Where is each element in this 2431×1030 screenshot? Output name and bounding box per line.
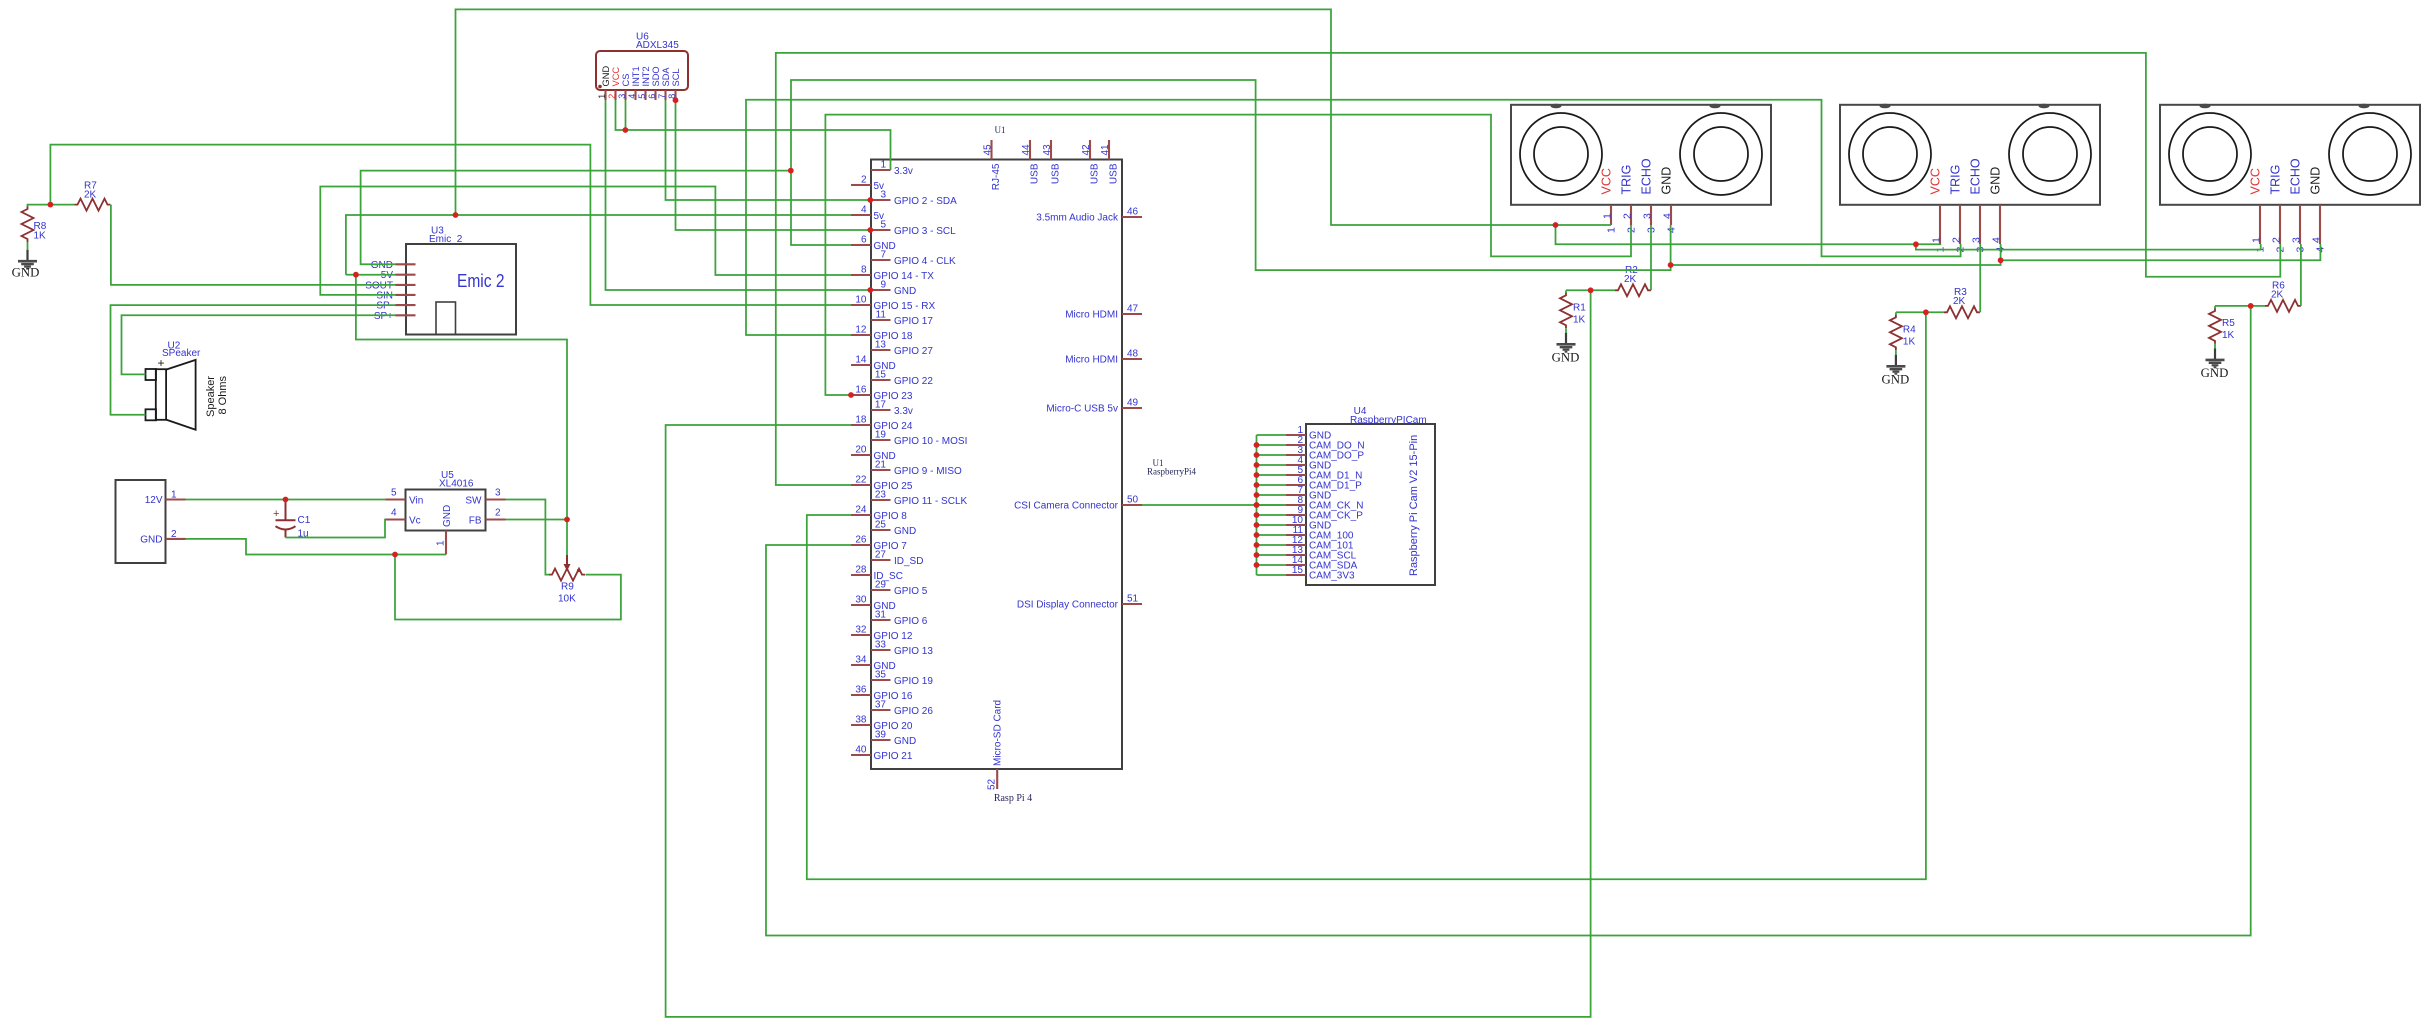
svg-text:VCC: VCC (2248, 168, 2262, 194)
wire net GND Pi pin6 riser and chain to sensor1 pin4 (791, 80, 1671, 270)
wire net SP+ to speaker + (122, 315, 396, 374)
svg-text:Vin: Vin (409, 496, 423, 507)
svg-text:USB: USB (1090, 163, 1101, 184)
svg-text:GPIO 5: GPIO 5 (894, 586, 928, 597)
ground below R8 (12, 250, 40, 280)
svg-text:CAM_3V3: CAM_3V3 (1309, 571, 1355, 582)
svg-text:27: 27 (875, 550, 887, 561)
svg-text:2K: 2K (2271, 289, 2284, 300)
wire wire camera pin15 elbow (1257, 574, 1287, 576)
wire net TRIG1 Pi pin16 GPIO23 to sensor1 pin2 (825, 115, 1631, 395)
svg-text:Micro-SD Card: Micro-SD Card (993, 700, 1004, 766)
wire net SP- to speaker - (111, 305, 396, 415)
svg-text:33: 33 (875, 640, 887, 651)
svg-text:1K: 1K (34, 231, 47, 242)
wire net TRIG2 Pi pin12 GPIO18 to sensor2 pin2 (746, 100, 1961, 335)
svg-text:8: 8 (861, 265, 867, 276)
wire wire camera pin8 link (1257, 504, 1287, 506)
svg-text:1: 1 (436, 540, 447, 546)
svg-text:GPIO 21: GPIO 21 (874, 751, 913, 762)
svg-text:43: 43 (1042, 144, 1053, 156)
wire net 3.3v ADXL VCC/CS to Pi pin1 (616, 100, 891, 170)
wire wire camera pin10 link (1257, 524, 1287, 526)
resistor R6 2K (2265, 280, 2301, 312)
wire net 5V top run to sensor1 VCC (456, 9, 1612, 225)
wire wire node3 to R6 left (2251, 305, 2265, 307)
svg-text:SDA: SDA (661, 67, 671, 87)
wire wire node2 to R4 top (1896, 311, 1926, 313)
wire wire camera pin1 elbow (1257, 434, 1287, 436)
wire wire R1 bottom to ground (1565, 328, 1567, 333)
svg-text:GND: GND (140, 535, 162, 546)
svg-text:USB: USB (1109, 163, 1120, 184)
wire wire camera pin12 link (1257, 544, 1287, 546)
svg-text:2K: 2K (1953, 296, 1966, 307)
svg-text:1: 1 (880, 160, 886, 171)
svg-text:37: 37 (875, 700, 887, 711)
resistor R1 1K (1560, 292, 1586, 328)
svg-text:GPIO 22: GPIO 22 (894, 376, 933, 387)
svg-text:1K: 1K (1573, 314, 1586, 325)
svg-text:7: 7 (880, 250, 886, 261)
svg-text:20: 20 (855, 445, 867, 456)
svg-text:TRIG: TRIG (1619, 165, 1633, 195)
buck converter U5 XL4016 (386, 470, 506, 555)
ground below R5 (2201, 348, 2229, 380)
wire net 5V stub to R9 wiper (566, 520, 568, 556)
svg-text:2: 2 (2271, 237, 2283, 243)
wire wire camera pin11 link (1257, 534, 1287, 536)
svg-text:Rasp Pi 4: Rasp Pi 4 (994, 793, 1032, 804)
svg-text:Vc: Vc (409, 516, 421, 527)
wire wire node1 to R2 left (1591, 289, 1615, 291)
svg-text:Emic 2: Emic 2 (457, 270, 505, 291)
svg-text:RaspberryPICam: RaspberryPICam (1350, 415, 1427, 426)
svg-text:3.3v: 3.3v (894, 406, 913, 417)
svg-text:30: 30 (855, 595, 867, 606)
svg-text:1: 1 (171, 490, 177, 501)
svg-text:11: 11 (876, 310, 887, 321)
svg-text:2: 2 (861, 175, 867, 186)
svg-text:2: 2 (495, 508, 501, 519)
svg-text:XL4016: XL4016 (439, 479, 474, 490)
svg-text:USB: USB (1051, 163, 1062, 184)
svg-text:GND: GND (894, 526, 916, 537)
potentiometer R9 10K (549, 555, 585, 605)
svg-text:51: 51 (1127, 594, 1139, 605)
svg-text:SCL: SCL (671, 68, 681, 86)
wire wire R8 to ground (27, 242, 29, 250)
wire wire camera pin3 link (1257, 454, 1287, 456)
svg-text:GPIO 3 - SCL: GPIO 3 - SCL (894, 226, 956, 237)
wire wire camera pin9 link (1257, 514, 1287, 516)
wire net ADXL GND to Pi pin9 (606, 100, 870, 290)
wire net 5V riser FB to Emic 5V (356, 275, 567, 520)
wire wire R5 bottom to ground (2214, 344, 2216, 349)
wire net R7 R8 junction to R8 (28, 205, 75, 207)
svg-text:VCC: VCC (1928, 168, 1942, 194)
svg-text:18: 18 (855, 415, 867, 426)
svg-text:GPIO 11 - SCLK: GPIO 11 - SCLK (894, 496, 968, 507)
svg-text:GND: GND (371, 260, 393, 271)
svg-text:1K: 1K (2222, 330, 2235, 341)
svg-text:Micro HDMI: Micro HDMI (1065, 355, 1118, 366)
svg-text:1: 1 (1602, 213, 1614, 219)
wire net PGND 12V GND to U5 GND pin (186, 539, 447, 555)
svg-text:ADXL345: ADXL345 (636, 40, 679, 51)
svg-text:5: 5 (391, 488, 397, 499)
svg-text:31: 31 (875, 610, 887, 621)
svg-text:ID_SD: ID_SD (894, 556, 923, 567)
connector 12V input (116, 480, 186, 563)
speaker U2 (146, 341, 230, 430)
svg-text:SW: SW (465, 496, 482, 507)
svg-text:ECHO: ECHO (1639, 158, 1653, 194)
wire wire R4 bottom to ground (1895, 350, 1897, 355)
svg-text:SDO: SDO (651, 66, 661, 86)
svg-text:Emic_2: Emic_2 (429, 234, 463, 245)
svg-text:CS: CS (621, 74, 631, 87)
svg-text:19: 19 (875, 430, 887, 441)
svg-text:3: 3 (2291, 237, 2303, 243)
svg-text:3: 3 (1642, 213, 1654, 219)
wire wire camera pin13 link (1257, 554, 1287, 556)
svg-text:25: 25 (875, 520, 887, 531)
capacitor C1 1u (273, 500, 311, 540)
svg-text:GND: GND (1552, 350, 1580, 364)
svg-text:6: 6 (861, 235, 867, 246)
svg-text:12: 12 (855, 325, 867, 336)
svg-text:TRIG: TRIG (2268, 165, 2282, 195)
svg-text:TRIG: TRIG (1948, 165, 1962, 195)
svg-text:6: 6 (647, 94, 657, 99)
svg-text:7: 7 (657, 94, 667, 99)
svg-text:GPIO 9 - MISO: GPIO 9 - MISO (894, 466, 962, 477)
svg-text:2: 2 (1622, 213, 1634, 219)
svg-text:49: 49 (1127, 398, 1139, 409)
svg-text:1K: 1K (1903, 336, 1916, 347)
wire net 12V to U5 Vin with C1 tap (186, 499, 386, 501)
svg-text:15: 15 (875, 370, 887, 381)
svg-text:GPIO 19: GPIO 19 (894, 676, 933, 687)
wire net 5V into Emic 5V pin (356, 274, 396, 276)
svg-text:R4: R4 (1903, 324, 1916, 335)
svg-text:2: 2 (1951, 237, 1963, 243)
svg-text:1: 1 (2251, 237, 2263, 243)
svg-text:10K: 10K (558, 594, 576, 605)
svg-text:INT1: INT1 (631, 66, 641, 86)
svg-text:GPIO 10 - MOSI: GPIO 10 - MOSI (894, 436, 967, 447)
svg-text:GND: GND (1988, 167, 2002, 195)
wire wire R4 top lead (1895, 312, 1897, 315)
svg-text:R9: R9 (561, 582, 574, 593)
svg-text:2K: 2K (1624, 274, 1637, 285)
svg-text:4: 4 (2311, 237, 2323, 243)
svg-text:R1: R1 (1573, 302, 1586, 313)
svg-text:VCC: VCC (611, 67, 621, 87)
svg-text:8 Ohms: 8 Ohms (217, 375, 229, 414)
svg-text:GND: GND (2308, 167, 2322, 195)
svg-text:28: 28 (855, 565, 867, 576)
svg-text:Speaker: Speaker (205, 376, 217, 417)
wire net GND Emic_2 GND to pin6 riser (361, 171, 791, 265)
svg-text:GPIO 27: GPIO 27 (894, 346, 933, 357)
ultrasonic sensor 1 (1511, 104, 1771, 233)
svg-text:ECHO: ECHO (2288, 158, 2302, 194)
svg-text:23: 23 (875, 490, 887, 501)
wire wire camera bus vertical (1256, 435, 1258, 575)
resistor R4 1K (1890, 314, 1916, 350)
svg-text:3.3v: 3.3v (894, 166, 913, 177)
svg-text:CSI Camera Connector: CSI Camera Connector (1014, 501, 1119, 512)
svg-text:15: 15 (1292, 565, 1304, 576)
svg-text:24: 24 (855, 505, 867, 516)
svg-text:41: 41 (1100, 144, 1111, 156)
svg-text:GPIO 17: GPIO 17 (894, 316, 933, 327)
svg-text:2: 2 (171, 529, 177, 540)
wire net SDA ADXL pin7 to Pi pin3 (666, 100, 870, 200)
svg-text:4: 4 (627, 94, 637, 99)
resistor R2 2K (1615, 265, 1651, 297)
wire wire R1 top lead (1565, 290, 1567, 293)
svg-text:RJ-45: RJ-45 (991, 163, 1002, 190)
svg-text:22: 22 (855, 475, 867, 486)
svg-text:50: 50 (1127, 495, 1139, 506)
ground below R4 (1882, 355, 1910, 387)
svg-text:16: 16 (855, 385, 867, 396)
ground below R1 (1552, 333, 1580, 365)
camera connector U4 RaspberryPICam (1286, 406, 1435, 585)
svg-text:USB: USB (1030, 163, 1041, 184)
svg-text:ECHO: ECHO (1968, 158, 1982, 194)
resistor R3 2K (1944, 287, 1980, 319)
svg-text:47: 47 (1127, 304, 1139, 315)
wire net CSI Pi pin50 to camera pin8 (1142, 504, 1286, 506)
svg-text:1: 1 (1605, 227, 1617, 233)
ultrasonic sensor 3 (2160, 104, 2420, 253)
wire wire camera pin4 link (1257, 464, 1287, 466)
svg-text:46: 46 (1127, 207, 1139, 218)
svg-text:U1: U1 (995, 125, 1006, 135)
wire ADXL CS drop to 3.3v net (625, 100, 627, 130)
wire net ECHO3 sensor3 pin3 to R6 (2300, 244, 2302, 306)
svg-text:GND: GND (1882, 372, 1910, 386)
svg-text:GPIO 2 - SDA: GPIO 2 - SDA (894, 196, 957, 207)
svg-text:VCC: VCC (1599, 168, 1613, 194)
svg-text:GND: GND (12, 266, 40, 280)
svg-text:GPIO 4 - CLK: GPIO 4 - CLK (894, 256, 956, 267)
svg-text:42: 42 (1081, 144, 1092, 156)
svg-text:26: 26 (855, 535, 867, 546)
svg-text:GND: GND (2201, 366, 2229, 380)
wire net 5V VCC chain sensor2 to sensor3 (1916, 244, 2261, 250)
svg-text:2: 2 (607, 94, 617, 99)
svg-text:48: 48 (1127, 349, 1139, 360)
wire net C1 bottom to U5 Vc (286, 520, 386, 538)
svg-text:Micro HDMI: Micro HDMI (1065, 310, 1118, 321)
svg-text:12V: 12V (145, 495, 163, 506)
svg-text:13: 13 (875, 340, 887, 351)
wire wire camera pin2 link (1257, 444, 1287, 446)
svg-text:40: 40 (855, 745, 867, 756)
svg-text:4: 4 (1662, 213, 1674, 219)
svg-text:4: 4 (1991, 237, 2003, 243)
svg-text:2K: 2K (84, 190, 97, 201)
svg-text:DSI Display Connector: DSI Display Connector (1017, 600, 1119, 611)
svg-text:17: 17 (875, 400, 887, 411)
wire net TRIG3 Pi pin22 GPIO25 to sensor3 pin2 (776, 53, 2281, 485)
svg-text:10: 10 (855, 295, 867, 306)
svg-text:SP+: SP+ (374, 311, 393, 322)
TTS module U3 Emic_2 (365, 226, 516, 335)
wire wire node3 to R5 top (2215, 305, 2251, 307)
svg-text:3: 3 (880, 190, 886, 201)
wire net SIN Emic to Pi pin8 TX (320, 187, 851, 295)
wire wire R5 top lead (2214, 306, 2216, 309)
svg-text:3: 3 (1971, 237, 1983, 243)
resistor R8 1K (22, 206, 47, 242)
wire net GND link sensor2 to sensor3 pin4 (2001, 244, 2321, 260)
svg-text:GND: GND (1659, 167, 1673, 195)
wire net GND link sensor1 to sensor2 pin4 (1671, 244, 2001, 265)
svg-text:45: 45 (983, 144, 994, 156)
wire net 5V link (346, 274, 356, 276)
wire net 5V VCC chain sensor1 to sensor2 (1556, 225, 1941, 244)
wire wire node1 to R1 top (1566, 289, 1591, 291)
svg-text:SPeaker: SPeaker (162, 348, 201, 359)
svg-text:3: 3 (617, 94, 627, 99)
svg-text:32: 32 (855, 625, 867, 636)
svg-text:14: 14 (855, 355, 867, 366)
svg-text:C1: C1 (298, 515, 311, 526)
wire net SW U5 to R9 left (506, 500, 550, 575)
Raspberry Pi U1 (851, 125, 1196, 804)
wire net RX divider tap to Pi pin10 (50, 145, 851, 305)
svg-text:+: + (273, 508, 279, 520)
resistor R7 2K (75, 181, 111, 211)
svg-text:52: 52 (987, 778, 998, 790)
svg-text:1: 1 (1931, 237, 1943, 243)
wire wire camera pin6 link (1257, 484, 1287, 486)
svg-text:29: 29 (875, 580, 887, 591)
wire net ECHO1 node to Pi pin18 GPIO24 (666, 290, 1591, 1017)
wire net 5V bus to Pi pin4 (346, 215, 851, 275)
svg-text:39: 39 (875, 730, 887, 741)
wire wire node2 to R3 left (1926, 311, 1944, 313)
svg-text:Raspberry Pi Cam V2 15-Pin: Raspberry Pi Cam V2 15-Pin (1408, 435, 1420, 576)
svg-text:5: 5 (880, 220, 886, 231)
svg-text:34: 34 (855, 655, 867, 666)
accelerometer U6 ADXL345 (596, 32, 688, 101)
svg-text:Micro-C USB 5v: Micro-C USB 5v (1046, 404, 1118, 415)
svg-text:RaspberryPi4: RaspberryPi4 (1147, 467, 1196, 477)
wire net SCL ADXL pin8 to Pi pin5 (676, 100, 870, 230)
wire net 5V U5 FB lead (506, 519, 568, 521)
svg-text:38: 38 (855, 715, 867, 726)
wire net ECHO1 sensor1 pin3 to R2 (1650, 225, 1652, 290)
svg-text:GND: GND (894, 286, 916, 297)
wire wire camera pin7 link (1257, 494, 1287, 496)
svg-text:FB: FB (469, 516, 482, 527)
svg-text:INT2: INT2 (641, 66, 651, 86)
svg-text:21: 21 (875, 460, 887, 471)
svg-text:9: 9 (880, 280, 886, 291)
svg-text:R5: R5 (2222, 318, 2235, 329)
svg-text:GPIO 26: GPIO 26 (894, 706, 933, 717)
svg-text:3: 3 (495, 488, 501, 499)
wire wire camera pin5 link (1257, 474, 1287, 476)
wire wire camera pin14 link (1257, 564, 1287, 566)
svg-text:GND: GND (442, 505, 453, 527)
wire net SOUT Emic to R7 right (111, 205, 396, 285)
svg-text:GPIO 6: GPIO 6 (894, 616, 928, 627)
wire net ECHO3 node to Pi pin26 GPIO7 (766, 306, 2251, 936)
svg-text:35: 35 (875, 670, 887, 681)
svg-text:44: 44 (1021, 144, 1032, 156)
svg-text:4: 4 (861, 205, 867, 216)
svg-text:3.5mm Audio Jack: 3.5mm Audio Jack (1036, 213, 1119, 224)
wire net ECHO2 node to Pi pin24 GPIO8 (807, 312, 1926, 879)
svg-text:4: 4 (391, 508, 397, 519)
wire net PGND to R9 right end (395, 555, 621, 620)
svg-text:GND: GND (894, 736, 916, 747)
resistor R5 1K (2209, 308, 2235, 344)
wire net ECHO2 sensor2 pin3 to R3 (1979, 244, 1981, 312)
ultrasonic sensor 2 (1840, 104, 2100, 253)
svg-text:5: 5 (637, 94, 647, 99)
svg-text:+: + (158, 356, 165, 370)
svg-text:GND: GND (601, 66, 611, 87)
svg-text:1: 1 (597, 94, 607, 99)
svg-text:36: 36 (855, 685, 867, 696)
svg-text:GPIO 13: GPIO 13 (894, 646, 933, 657)
